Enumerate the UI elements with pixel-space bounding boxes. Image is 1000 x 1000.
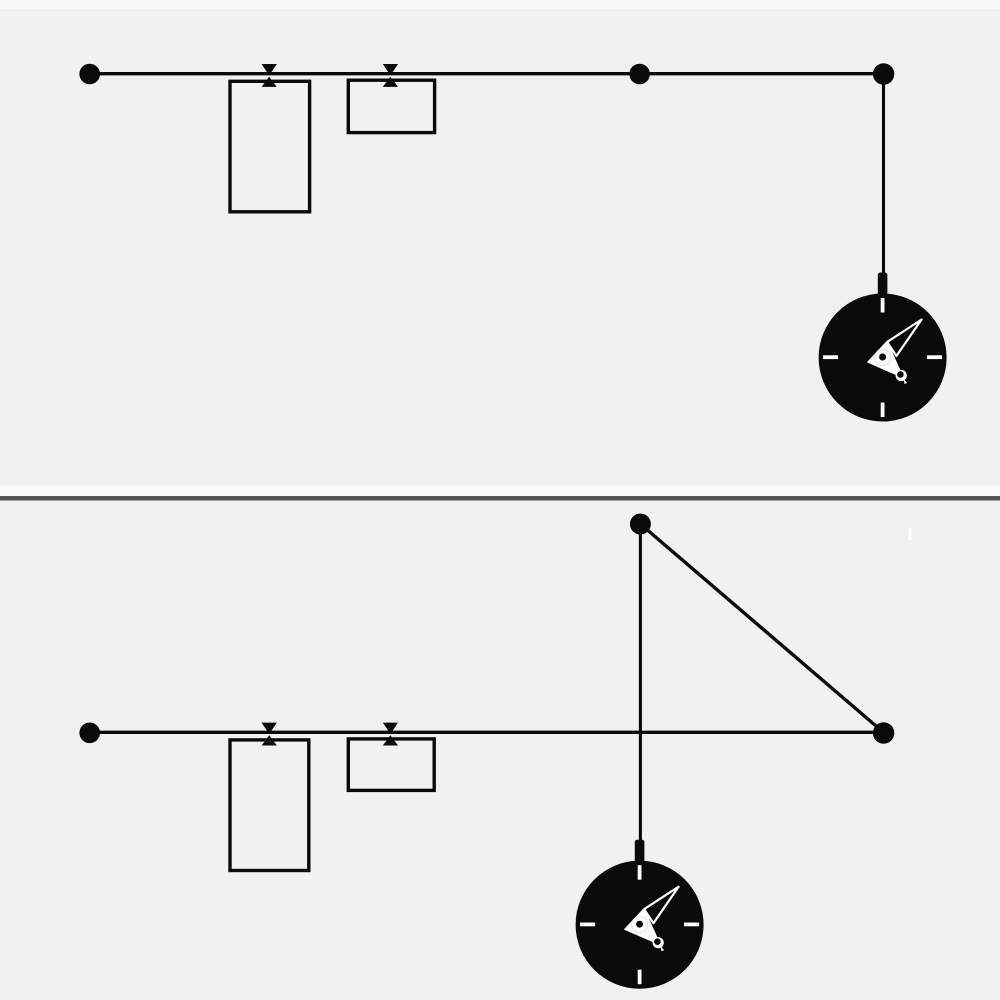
node C (top-right): [873, 63, 894, 84]
wire: diagonal brace: [640, 524, 883, 733]
valve V4: [383, 723, 398, 746]
valve V1: [262, 64, 277, 87]
node A (top-left): [79, 64, 100, 85]
node E (bottom-left): [79, 723, 100, 744]
valve V3: [262, 723, 277, 746]
load rectangle L4: [348, 739, 434, 791]
node B (top-middle): [629, 64, 650, 85]
valve V2: [383, 64, 398, 87]
load rectangle L3: [230, 740, 309, 871]
load rectangle L1: [230, 81, 310, 212]
wire: bottom bus: [90, 731, 884, 734]
divider line: [0, 496, 1000, 501]
clock/gauge M2: [576, 840, 704, 989]
node F (bottom-right): [873, 722, 894, 743]
load rectangle L2: [348, 80, 434, 132]
stray white tick: [908, 529, 911, 541]
node D (apex of triangle): [630, 514, 651, 535]
clock/gauge M1: [819, 273, 947, 422]
wire: vertical drop from apex to clock: [639, 524, 642, 843]
wire: top bus: [90, 72, 884, 75]
wire: top drop to clock: [882, 74, 885, 276]
